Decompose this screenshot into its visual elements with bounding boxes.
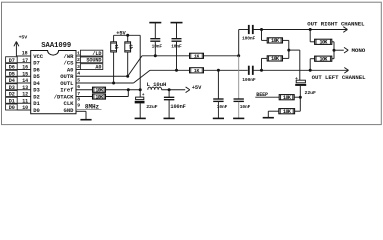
svg-text:18: 18: [22, 50, 28, 56]
svg-text:SOUND: SOUND: [86, 58, 101, 64]
svg-text:8: 8: [77, 97, 80, 103]
svg-text:10K: 10K: [283, 109, 291, 115]
svg-text:100nF: 100nF: [242, 36, 256, 42]
svg-text:/LD: /LD: [92, 51, 101, 57]
svg-text:1k: 1k: [127, 44, 132, 49]
svg-text:10nF: 10nF: [152, 44, 163, 50]
svg-text:100nF: 100nF: [170, 104, 185, 110]
svg-text:L 10uH: L 10uH: [147, 81, 167, 88]
svg-text:1K: 1K: [194, 68, 200, 74]
svg-text:10K: 10K: [95, 88, 103, 94]
svg-text:OUT RIGHT CHANNEL: OUT RIGHT CHANNEL: [307, 20, 365, 27]
svg-text:6: 6: [77, 84, 80, 90]
svg-text:10K: 10K: [320, 40, 328, 46]
svg-text:2: 2: [77, 57, 80, 63]
svg-text:D4: D4: [9, 78, 15, 84]
svg-text:+5V: +5V: [192, 85, 202, 91]
svg-text:10K: 10K: [283, 95, 291, 101]
svg-text:D0: D0: [9, 105, 15, 111]
svg-text:MONO: MONO: [352, 47, 366, 54]
svg-text:9: 9: [77, 102, 80, 108]
svg-text:SAA1099: SAA1099: [41, 42, 71, 50]
svg-text:10nF: 10nF: [217, 104, 228, 110]
svg-text:10nF: 10nF: [240, 104, 251, 110]
svg-text:+5V: +5V: [19, 35, 28, 41]
svg-text:8MHz: 8MHz: [85, 103, 100, 110]
svg-text:D5: D5: [9, 71, 15, 77]
svg-text:100nF: 100nF: [242, 77, 256, 83]
svg-text:D2: D2: [9, 92, 15, 98]
svg-text:10K: 10K: [271, 56, 279, 62]
svg-text:1: 1: [77, 50, 80, 56]
svg-text:10nF: 10nF: [171, 44, 182, 50]
svg-text:D3: D3: [9, 85, 15, 91]
svg-text:5: 5: [77, 77, 80, 83]
svg-text:D1: D1: [9, 98, 15, 104]
svg-text:10K: 10K: [271, 38, 279, 44]
svg-text:D0: D0: [33, 107, 40, 114]
svg-text:22uF: 22uF: [146, 104, 157, 110]
svg-text:4: 4: [77, 71, 80, 77]
svg-text:GND: GND: [64, 107, 75, 114]
svg-text:10K: 10K: [95, 94, 103, 100]
svg-text:7: 7: [77, 91, 80, 97]
svg-text:22uF: 22uF: [305, 90, 316, 96]
svg-text:OUT LEFT CHANNEL: OUT LEFT CHANNEL: [312, 74, 366, 81]
svg-text:A0: A0: [95, 64, 101, 70]
svg-text:1K: 1K: [194, 54, 200, 60]
svg-text:3: 3: [77, 64, 80, 70]
svg-text:+5V: +5V: [116, 30, 126, 36]
svg-text:D7: D7: [9, 58, 15, 64]
svg-text:D6: D6: [9, 65, 15, 71]
svg-text:1k: 1k: [113, 44, 118, 49]
svg-text:10K: 10K: [320, 57, 328, 63]
